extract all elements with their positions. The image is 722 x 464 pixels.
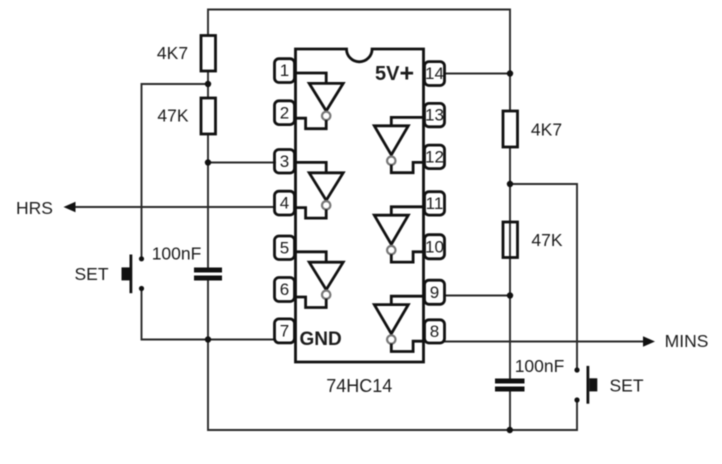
junction node 5V pin14 (507, 70, 513, 76)
pin 6 (275, 278, 295, 302)
svg-text:6: 6 (280, 280, 289, 299)
op-amp/inverter U1a (left column, pins 1->2) (295, 73, 344, 129)
svg-text:13: 13 (425, 106, 444, 125)
junction node GND rail (205, 336, 211, 342)
svg-text:74HC14: 74HC14 (326, 376, 392, 396)
pin 3 (275, 150, 295, 174)
resistor R4 47K right (503, 222, 518, 258)
op-amp/inverter U1d (right column, pins 13->12) (374, 117, 424, 172)
pushbutton SET1 left: button cap (122, 267, 130, 280)
junction node R3/SET2 (507, 181, 513, 187)
pushbutton SET2 right: actuator bar (587, 366, 590, 404)
pin 7 (275, 319, 295, 343)
pushbutton SET1 left: contact dots (139, 256, 144, 261)
wire pin 8 output to MINS (444, 341, 644, 343)
junction node bottom rail (507, 427, 513, 433)
pin 9 (425, 280, 445, 304)
pushbutton SET1 left: actuator bar (129, 255, 132, 294)
wire top rail (208, 10, 510, 112)
wire pin 9 to right rail (444, 295, 510, 297)
wire R1 to R2 (207, 71, 209, 98)
svg-text:SET: SET (609, 375, 643, 395)
svg-text:5: 5 (280, 238, 289, 257)
svg-text:1: 1 (280, 61, 289, 80)
svg-text:5V+: 5V+ (375, 60, 414, 88)
pushbutton SET2 right: contact dots (574, 367, 579, 372)
wire junction to pin 3 (208, 162, 276, 164)
svg-text:12: 12 (425, 147, 444, 166)
wire R2 to C1 (207, 134, 209, 268)
svg-text:SET: SET (74, 264, 108, 284)
svg-text:2: 2 (280, 103, 289, 122)
resistor R1 4K7 left (201, 36, 216, 72)
op-amp/inverter U1b (left column, pins 3->4) (295, 162, 344, 218)
resistor R2 47K left (201, 98, 216, 134)
svg-text:4K7: 4K7 (157, 43, 188, 63)
wire pin 14 to right rail (444, 73, 510, 75)
pin 1 (275, 59, 295, 83)
svg-text:7: 7 (280, 322, 289, 341)
op-amp/inverter U1e (right column, pins 11->10) (374, 207, 424, 262)
pin 11 (425, 192, 445, 215)
arrowhead MINS (643, 336, 655, 346)
svg-text:4K7: 4K7 (531, 120, 562, 140)
junction node R1/R2/SET1 (205, 81, 211, 87)
resistor R3 4K7 right (503, 111, 518, 147)
svg-text:8: 8 (430, 322, 439, 341)
svg-text:4: 4 (280, 194, 289, 213)
pin 4 (275, 191, 295, 215)
svg-text:100nF: 100nF (152, 244, 202, 264)
pin 8 (425, 320, 445, 343)
svg-text:11: 11 (426, 194, 444, 213)
capacitor C2 100nF right (495, 381, 525, 389)
wire SET1 bottom to pin 7 / GND rail (142, 291, 277, 340)
pushbutton SET2 right: button cap (589, 378, 597, 391)
pin 13 (425, 103, 445, 126)
op-amp/inverter U1c (left column, pins 5->6) (295, 252, 344, 308)
arrowhead HRS (64, 202, 76, 212)
op-amp/inverter U1f (right column, pins 9->8) (374, 296, 424, 351)
IC U1 74HC14 body (296, 49, 424, 362)
pin 5 (275, 236, 295, 260)
svg-text:9: 9 (430, 283, 439, 302)
svg-text:47K: 47K (157, 106, 188, 126)
svg-text:MINS: MINS (665, 331, 709, 351)
wire C2 to bottom rail (509, 392, 511, 431)
pin 10 (425, 235, 445, 259)
svg-text:GND: GND (300, 329, 342, 350)
capacitor C1 100nF left (194, 270, 222, 278)
junction node R4/pin9 (507, 292, 513, 298)
pin 2 (275, 101, 295, 125)
svg-text:100nF: 100nF (515, 356, 565, 376)
wire pin 4 output to HRS (74, 206, 276, 208)
wire left branch from R1/R2 junction to SET (142, 84, 209, 257)
junction node R2/pin3 (205, 159, 211, 165)
wire R3 to C2 (509, 147, 511, 379)
wire right branch to SET2 (510, 184, 577, 368)
svg-text:14: 14 (425, 64, 444, 83)
svg-text:HRS: HRS (16, 198, 53, 218)
pin 14 (425, 62, 445, 86)
svg-text:47K: 47K (531, 230, 562, 250)
pin 12 (425, 145, 445, 169)
svg-text:10: 10 (425, 237, 444, 256)
wire bottom rail (208, 281, 577, 431)
svg-text:3: 3 (280, 152, 289, 171)
